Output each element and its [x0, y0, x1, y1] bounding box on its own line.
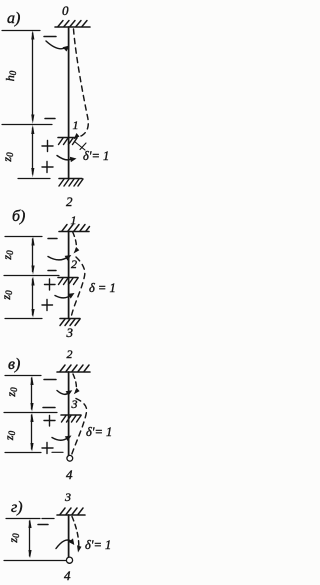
- rotation arrow above node 3 diagram v: [57, 390, 72, 396]
- plus sign 2 segment 3-4 diagram v: [42, 443, 53, 454]
- rotation arrow below node 3 diagram v: [52, 436, 72, 442]
- dimension line upper z diagram b: [31, 236, 34, 274]
- node 2 label diagram a: [66, 194, 73, 209]
- support at node 1: [58, 138, 77, 145]
- extent line node 1 diagram b: [5, 236, 42, 238]
- extent line node 3 diagram g: [6, 518, 40, 520]
- dimension label lower z diagram b: [0, 290, 14, 301]
- support at node 3 diagram g: [57, 508, 85, 515]
- plus sign 2 segment 1-2: [42, 162, 53, 173]
- svg-text:1: 1: [73, 118, 79, 132]
- svg-text:4: 4: [64, 568, 71, 583]
- node 3 label diagram v: [71, 397, 78, 411]
- extent line node 3 diagram b: [5, 318, 42, 320]
- dashed deflection curve 3-4 diagram v: [72, 399, 87, 456]
- minus sign bottom of segment 0-1: [45, 118, 55, 120]
- minus sign top segment 1-2 diagram b: [48, 238, 57, 240]
- node 4 label diagram v: [66, 467, 73, 482]
- extent line node 2 diagram v: [5, 375, 41, 377]
- dashed deflection curve 2-3 diagram v: [73, 374, 80, 394]
- minus sign bottom segment 2-3 diagram v: [43, 407, 55, 409]
- dimension label lower z diagram v: [2, 430, 17, 441]
- dimension label z0 diagram a: [0, 152, 15, 163]
- svg-text:z0: z0: [0, 152, 15, 163]
- dimension line z diagram g: [28, 519, 31, 558]
- svg-text:0: 0: [62, 3, 69, 18]
- dimension label upper z diagram v: [4, 387, 19, 398]
- delta label diagram v: [86, 425, 112, 439]
- dashed deflection curve 2-3 diagram b: [72, 257, 85, 316]
- minus sign top segment 2-3 diagram v: [44, 379, 56, 381]
- extent line node 0: [2, 30, 40, 32]
- svg-text:3: 3: [66, 325, 74, 340]
- dashed deflection curve 1-2 diagram b: [73, 232, 80, 254]
- svg-text:2: 2: [71, 257, 77, 271]
- column diagram g: [68, 515, 70, 557]
- rotation arrow above node 2 diagram b: [48, 255, 71, 261]
- extent line node 4 diagram v: [5, 452, 41, 454]
- node 2 label diagram v: [67, 347, 73, 361]
- support at node 2: [59, 179, 83, 187]
- extent line node 2 diagram b: [4, 275, 59, 277]
- extent line node 3 diagram v: [4, 412, 57, 414]
- minus sign top of segment 0-1: [44, 36, 56, 38]
- svg-text:в): в): [8, 356, 20, 373]
- dimension line lower z diagram b: [31, 276, 34, 318]
- plus sign 1 segment 3-4 diagram v: [44, 416, 55, 427]
- support at node 3 diagram b: [60, 319, 80, 326]
- extent line stub right diagram v: [52, 451, 63, 453]
- svg-text:z0: z0: [0, 290, 14, 301]
- svg-text:3: 3: [64, 490, 71, 504]
- svg-text:δ'= 1: δ'= 1: [85, 538, 111, 552]
- extent line node 2: [18, 178, 50, 180]
- rotation arrow below node 2 diagram b: [55, 293, 75, 299]
- dimension label h0: [3, 70, 18, 81]
- svg-text:δ'= 1: δ'= 1: [86, 425, 112, 439]
- svg-text:г): г): [11, 499, 23, 516]
- minus sign bottom segment 1-2 diagram b: [48, 270, 56, 272]
- dimension label z diagram g: [6, 533, 21, 544]
- dimension line lower z diagram v: [30, 413, 33, 452]
- label a): [7, 10, 20, 27]
- support at node 3 diagram v: [61, 415, 81, 422]
- svg-text:z0: z0: [4, 387, 19, 398]
- dimension line z0 of diagram a: [31, 125, 34, 177]
- svg-text:δ = 1: δ = 1: [89, 281, 116, 295]
- rotation arrow at node 0: [46, 41, 70, 52]
- leader to delta label diagram a: [75, 142, 87, 151]
- plus sign 2 segment 2-3 diagram b: [42, 300, 53, 311]
- hinge circle at node 4 diagram v: [67, 455, 73, 461]
- plus sign 1 segment 1-2: [42, 141, 53, 152]
- label b): [12, 208, 25, 225]
- label g): [11, 499, 23, 516]
- node 4 label diagram g: [64, 568, 71, 583]
- svg-text:2: 2: [67, 347, 73, 361]
- plus sign 1 segment 2-3 diagram b: [45, 279, 56, 290]
- svg-text:z0: z0: [0, 250, 15, 261]
- svg-text:а): а): [7, 10, 20, 27]
- svg-text:h0: h0: [3, 70, 18, 81]
- delta label diagram g: [85, 538, 111, 552]
- svg-text:4: 4: [66, 467, 73, 482]
- svg-text:2: 2: [66, 194, 73, 209]
- dimension line h0: [31, 30, 34, 123]
- svg-text:z0: z0: [2, 430, 17, 441]
- minus sign segment 3-4 diagram g: [38, 524, 48, 526]
- extent line node 4 diagram g: [4, 560, 66, 562]
- dimension label upper z diagram b: [0, 250, 15, 261]
- rotation arrow diagram g: [56, 538, 74, 548]
- node 3 label diagram g: [64, 490, 71, 504]
- rotation arrow at node 1: [57, 156, 77, 163]
- delta label diagram b: [89, 281, 116, 295]
- column 0-2: [68, 27, 70, 178]
- dashed deflection curve 0-1: [74, 29, 89, 140]
- column diagram b: [68, 232, 70, 319]
- support at node 1 diagram b: [59, 225, 90, 232]
- node 3 label diagram b: [66, 325, 74, 340]
- dash right of extent diagram g: [42, 518, 54, 520]
- dimension line upper z diagram v: [30, 376, 33, 412]
- node 2 label diagram b: [71, 257, 77, 271]
- node 0: [62, 3, 69, 18]
- support at node 0: [55, 21, 90, 28]
- hinge circle at node 4 diagram g: [66, 557, 72, 563]
- svg-text:δ'= 1: δ'= 1: [83, 149, 109, 163]
- delta label diagram a: [83, 149, 109, 163]
- extent line node 1: [2, 124, 52, 126]
- node 1: [73, 118, 79, 132]
- column diagram v: [68, 372, 70, 455]
- svg-text:б): б): [12, 208, 25, 225]
- svg-text:z0: z0: [6, 533, 21, 544]
- node 1 label diagram b: [71, 213, 77, 227]
- dashed deflection line diagram g: [72, 517, 82, 553]
- label v): [8, 356, 20, 373]
- support at node 2 diagram b: [58, 278, 78, 285]
- support at node 2 diagram v: [57, 365, 90, 372]
